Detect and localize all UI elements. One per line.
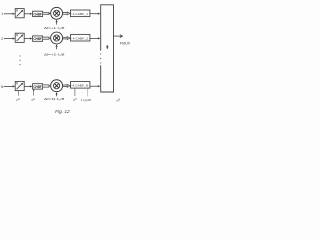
- sample-rate converter SN rowN: [15, 81, 24, 90]
- leader wire under CABF_N left: [74, 88, 76, 96]
- filter CHBF rowN: [33, 84, 43, 89]
- adder symbol inside MUX: [106, 45, 108, 49]
- mixer MN rowN: [51, 80, 63, 92]
- bus wire CHBF to mixer row1 (complex double line): [43, 12, 51, 14]
- sample-rate converter S2 row2: [15, 33, 24, 42]
- multiplexer MUX box: [101, 5, 114, 92]
- leader wire b2 under CHBF rowN: [33, 89, 34, 95]
- wire input row1: [4, 13, 15, 15]
- mixer M1 row1 (double circle with X): [51, 7, 63, 19]
- svg-text:FMUX: FMUX: [120, 42, 131, 46]
- interpolating filter CABF_1 row1: [71, 10, 90, 17]
- mixer M2 row2: [51, 32, 63, 44]
- svg-text:↑4 CABF_2: ↑4 CABF_2: [71, 36, 88, 40]
- node N input label: [1, 85, 4, 89]
- LO frequency label row2: [44, 52, 65, 56]
- reference label b5N: [73, 98, 77, 102]
- svg-text:2: 2: [1, 37, 3, 41]
- LO wire rowN: [56, 92, 58, 96]
- svg-text:1: 1: [1, 12, 3, 16]
- LO frequency label row1: [44, 26, 65, 30]
- wire CABF_1 to MUX: [90, 13, 100, 15]
- svg-text:CHBF: CHBF: [33, 85, 41, 89]
- wire row2: [24, 37, 32, 39]
- node 2 input label: [1, 37, 3, 41]
- reference label b1N: [16, 98, 20, 102]
- reference label b2N: [32, 98, 36, 102]
- output wire of MUX: [114, 35, 123, 38]
- interpolating filter CABF_N rowN: [71, 82, 90, 89]
- wire CABF_N to MUX: [90, 85, 100, 87]
- interpolating filter CABF_2 row2: [71, 34, 90, 41]
- svg-text:CHBF: CHBF: [33, 12, 41, 16]
- bus arrow mixer to CABF row2: [63, 37, 70, 40]
- svg-text:CHBF: CHBF: [33, 37, 41, 41]
- bus wire CHBF to mixer row2: [43, 37, 51, 39]
- vertical ellipsis between rows (left): [20, 55, 21, 65]
- figure caption Fig. 12: [55, 109, 70, 114]
- svg-text:Δf=+2·f₀/8: Δf=+2·f₀/8: [44, 52, 65, 56]
- svg-text:Δf=+1·f₀/8: Δf=+1·f₀/8: [44, 26, 65, 30]
- wire row1: [24, 13, 32, 15]
- svg-text:↑4 CABF_N: ↑4 CABF_N: [71, 84, 88, 88]
- LO frequency label rowN: [44, 97, 65, 101]
- bus wire CHBF to mixer rowN: [43, 85, 51, 87]
- reference label bN bottom right: [117, 98, 121, 102]
- LO wire row1: [56, 20, 58, 25]
- wire CABF_2 to MUX: [90, 37, 100, 39]
- sample-rate converter S1 row1 (box with diagonal arrow): [15, 9, 24, 18]
- MUX output label: [120, 42, 131, 46]
- filter CHBF row2: [33, 36, 43, 41]
- wire input rowN: [4, 85, 15, 87]
- node 1 input label: [1, 12, 3, 16]
- bus arrow mixer to CABF rowN: [63, 84, 70, 87]
- wire rowN: [24, 85, 32, 87]
- svg-text:Fig. 12: Fig. 12: [55, 109, 70, 114]
- svg-text:Δf=N·f₀/8: Δf=N·f₀/8: [44, 97, 65, 101]
- LO wire row2: [56, 44, 58, 49]
- rate label fA: [81, 98, 91, 102]
- svg-text:1 f₄(s)/8: 1 f₄(s)/8: [81, 98, 91, 102]
- leader wire b1 under SN: [18, 91, 20, 96]
- bus arrow mixer to CABF row1: [63, 12, 70, 15]
- svg-text:↑4 CABF_1: ↑4 CABF_1: [71, 12, 88, 16]
- leader wire under CABF_N right: [87, 88, 89, 96]
- filter CHBF row1: [33, 11, 43, 16]
- dotted edge segment of MUX: [100, 53, 101, 63]
- wire input row2: [4, 37, 15, 39]
